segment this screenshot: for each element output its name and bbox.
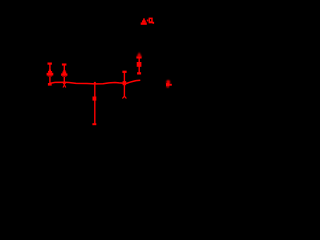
capacitor branch C1 (vertical element below bus) (92, 84, 96, 126)
current source I3 (vertical element crossing bus) (122, 72, 126, 99)
current source I1 (left vertical element) (47, 64, 54, 84)
label dot (147, 20, 149, 22)
label Q glyph (149, 18, 155, 24)
wire bus (bottom horizontal net) (50, 80, 140, 84)
current source I2 (second vertical element) (61, 65, 67, 88)
node junction tap (94, 82, 96, 84)
cursor blob (right of bus) (166, 80, 172, 88)
label arrow (triangle glyph) (141, 18, 147, 24)
source V1 (upper right vertical element) (136, 52, 141, 74)
node junction at I1/bus corner (48, 83, 52, 86)
node junction at I2/bus (63, 82, 66, 84)
